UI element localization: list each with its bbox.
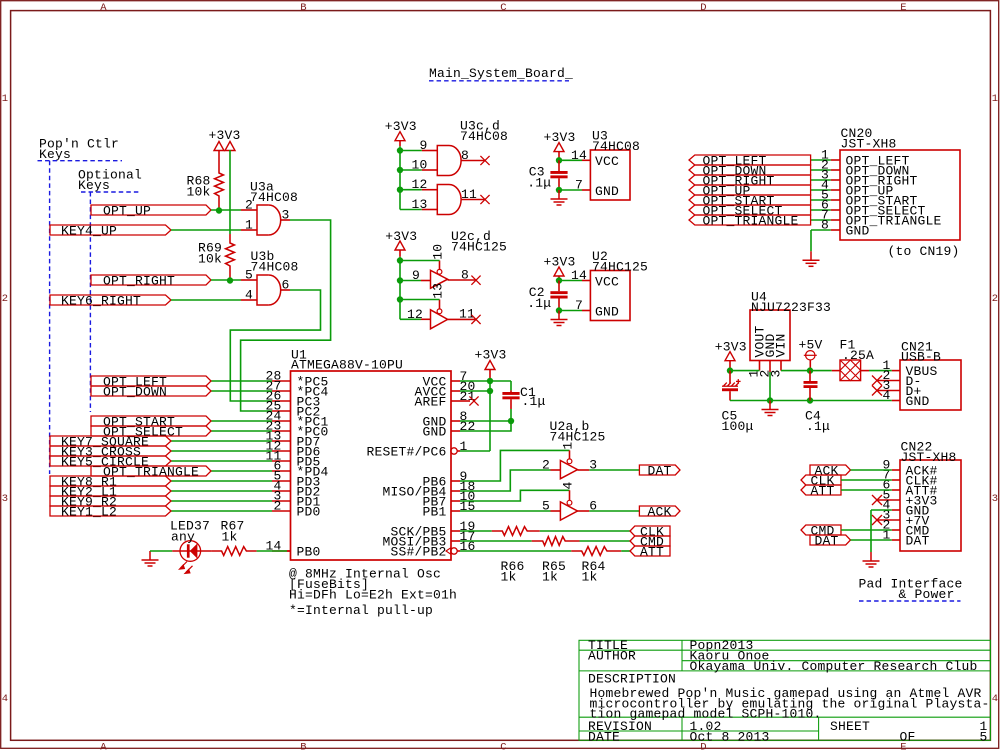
svg-text:2: 2 <box>2 293 9 305</box>
wire DAT to CN22 <box>851 539 892 541</box>
svg-text:NJU7223F33: NJU7223F33 <box>751 300 831 315</box>
svg-text:11: 11 <box>461 187 477 202</box>
junction C3 top <box>556 157 562 163</box>
U2d pin 11 output <box>448 307 476 322</box>
hierarchical label OPT_DOWN <box>91 384 211 399</box>
title block AUTHOR row <box>588 649 978 675</box>
wire VIN/+5V row <box>781 370 832 372</box>
svg-text:2: 2 <box>992 293 999 305</box>
svg-text:USB-B: USB-B <box>901 350 941 365</box>
power +3V3 (U3/C3) <box>544 130 576 145</box>
IC U1 ATMEGA88V-10PU <box>291 348 452 561</box>
wire PB1 to U2b input <box>460 510 551 512</box>
capacitor C4 .1u <box>804 371 818 401</box>
U3a pin 3 output <box>281 208 290 223</box>
U1 pin 12 PD6 <box>265 439 320 460</box>
svg-text:74HC125: 74HC125 <box>451 240 507 255</box>
border column labels top A-E <box>100 2 907 14</box>
op-amp U2c 74HC125 buffer <box>431 229 508 288</box>
junction AVCC <box>487 388 493 394</box>
no-connect X U3c output <box>480 156 489 165</box>
wire KEY5_CIRCLE to U1 <box>171 460 272 462</box>
svg-text:74HC08: 74HC08 <box>250 190 298 205</box>
CN21 pin 3 D+ <box>878 378 922 399</box>
op-amp U2d 74HC125 buffer <box>431 309 448 329</box>
CN22 pin 7 CLK# <box>882 468 937 489</box>
wire GND pin8 row <box>460 420 511 422</box>
resistor R67 <box>212 547 257 556</box>
resistor R68 <box>215 150 224 211</box>
svg-text:4: 4 <box>560 481 575 489</box>
svg-text:74HC125: 74HC125 <box>592 259 648 274</box>
svg-text:DAT: DAT <box>906 534 930 549</box>
svg-text:KEY1_L2: KEY1_L2 <box>61 504 117 519</box>
power +3V3 label (U4 out) <box>715 339 747 354</box>
CN20 pin 4 OPT_UP <box>821 178 894 199</box>
U2a enable pin 1 <box>560 442 575 459</box>
hierarchical label CMD <box>630 534 670 549</box>
U1 pin 6 *PD4 <box>272 459 329 480</box>
label C5 100u <box>722 409 754 435</box>
wire OPT_UP to CN20 <box>811 189 831 191</box>
svg-text:1k: 1k <box>501 569 517 584</box>
wire +3V3 stem U2c,d <box>399 250 401 257</box>
U1 pin 17 MOSI/PB3 <box>382 529 475 550</box>
svg-text:DESCRIPTION: DESCRIPTION <box>588 672 676 687</box>
fuse F1 .25A <box>832 338 874 381</box>
LED LED37 any <box>170 519 212 574</box>
svg-text:1: 1 <box>560 442 575 450</box>
svg-text:PD0: PD0 <box>297 505 321 520</box>
svg-text:A: A <box>100 2 107 14</box>
power +3V3 arrow (U4 out) <box>725 352 735 361</box>
svg-text:11: 11 <box>459 307 475 322</box>
wire AVCC row <box>460 390 490 392</box>
U1 pin 8 GND <box>422 409 467 430</box>
hierarchical label KEY9_R2 <box>50 494 171 509</box>
svg-text:.1μ: .1μ <box>522 394 546 409</box>
hierarchical label KEY4_UP <box>50 223 171 238</box>
capacitor C1 <box>502 390 519 409</box>
wire OPT_DOWN to CN20 <box>811 169 831 171</box>
U1 pin 16 SS#/PB2 <box>390 539 475 560</box>
wire SS#/PB2 to R64 <box>460 550 571 552</box>
hierarchical label OPT_RIGHT (CN20) <box>689 173 811 188</box>
wire C3/U3 VCC <box>559 159 582 161</box>
U2 pin 14 <box>571 268 590 283</box>
U3c pin 10 <box>411 158 437 173</box>
svg-text:OF: OF <box>900 729 916 744</box>
svg-text:B: B <box>300 741 307 750</box>
border row labels left 1-4 <box>2 93 9 705</box>
title block frame <box>579 640 990 740</box>
junction U2d enable <box>397 296 403 302</box>
title block DATE row <box>588 729 988 744</box>
wire OPT_START to U1 <box>211 420 272 422</box>
op-amp U2b 74HC125 buffer <box>560 500 577 520</box>
no-connect X U2d output <box>471 315 480 324</box>
wire R67 to U1 PB0 <box>257 550 287 552</box>
svg-text:1: 1 <box>245 218 253 233</box>
CN20 pin 7 OPT_TRIANGLE <box>821 208 942 229</box>
U1 pin 26 PC3 <box>265 389 320 410</box>
svg-text:DAT: DAT <box>815 533 839 548</box>
wire PB0 stub <box>287 550 291 552</box>
hierarchical label KEY8_R1 <box>50 474 171 489</box>
wire U2a out to DAT <box>589 469 639 471</box>
svg-text:10k: 10k <box>186 184 210 199</box>
svg-text:E: E <box>900 2 907 14</box>
note Optional Keys <box>78 167 142 193</box>
wire OPT_SELECT to CN20 <box>811 209 831 211</box>
U1 pin 11 PD5 <box>265 449 320 470</box>
power +3V3 label (R68/R69 rail) <box>209 128 241 143</box>
hierarchical label KEY3_CROSS <box>50 444 171 459</box>
power +3V3 arrow (U3/C3) <box>554 143 564 152</box>
ground (LED37) <box>142 551 159 566</box>
note Pop'n Ctlr Keys <box>39 136 119 162</box>
power +3V3 arrow (U3c,d) <box>395 132 405 141</box>
wire +3V3 stem U2 <box>558 276 560 281</box>
junction +5V/C4 <box>807 367 813 373</box>
wire KEY7_SQUARE to U1 <box>171 440 272 442</box>
svg-text:ATMEGA88V-10PU: ATMEGA88V-10PU <box>291 358 403 373</box>
U2b pin 5 <box>542 499 560 514</box>
U1 pin 13 PD7 <box>265 429 320 450</box>
svg-text:JST-XH8: JST-XH8 <box>841 137 897 152</box>
power +3V3 arrow (R69) <box>225 142 235 151</box>
wire C2/U2 VCC <box>559 280 582 282</box>
wire U3c pin9 <box>400 150 422 152</box>
IC U3 74HC08 power unit <box>590 129 640 201</box>
svg-text:GND: GND <box>906 394 930 409</box>
junction R68/OPT_UP <box>216 207 222 213</box>
hierarchical label KEY7_SQUARE <box>50 434 171 449</box>
power +3V3 (U3c,d) <box>385 119 417 134</box>
dashed bracket Optional Keys horizontal <box>81 191 141 193</box>
capacitor C2 <box>550 281 567 311</box>
svg-text:PB0: PB0 <box>297 545 321 560</box>
CN22 pin 1 DAT <box>882 528 929 549</box>
op-amp U3b 74HC08 AND gate <box>251 249 299 305</box>
power +3V3 arrow (U2c,d) <box>395 241 405 250</box>
CN22 pin 3 +7V <box>878 508 930 529</box>
wire CN22 GND drop <box>870 510 872 552</box>
svg-text:C: C <box>500 2 507 14</box>
connector CN21 USB-B <box>900 339 961 410</box>
junction C1/GND8 <box>508 418 514 424</box>
wire U3a out to U1 PC2 <box>241 220 331 411</box>
wire KEY9_R2 to U1 <box>171 500 272 502</box>
wire CMD to CN22 <box>841 529 892 531</box>
wire KEY4_UP to U3a pin1 <box>171 229 241 231</box>
label R64 1k <box>582 559 606 584</box>
wire CN22 GND <box>871 509 892 511</box>
U1 pin 9 PB6 <box>422 469 467 490</box>
junction C5/+3V3 <box>727 367 733 373</box>
wire +3V3 stem U1 <box>489 369 491 378</box>
svg-text:ATT: ATT <box>811 483 835 498</box>
U2b pin 6 output <box>578 499 598 514</box>
wire U2c enable <box>400 260 440 262</box>
wire F1 to CN21 VBUS <box>869 370 892 372</box>
wire +3V3 stem U3c,d <box>399 140 401 146</box>
hierarchical label OPT_START <box>91 414 211 429</box>
U1 pin 15 PB1 <box>422 499 475 520</box>
U1 pin 19 SCK/PB5 <box>390 519 475 540</box>
junction U3c pin10 <box>397 167 403 173</box>
svg-text:2: 2 <box>542 458 550 473</box>
svg-text:GND: GND <box>595 184 619 199</box>
svg-text:8: 8 <box>461 268 469 283</box>
svg-text:DAT: DAT <box>648 463 672 478</box>
svg-text:Okayama Univ. Computer Researc: Okayama Univ. Computer Research Club <box>690 659 978 674</box>
connector CN20 JST-XH8 <box>840 126 960 240</box>
U3b pin 6 output <box>281 278 290 293</box>
wire AREF stub <box>460 400 470 402</box>
wire OPT_TRIANGLE to CN20 <box>811 219 831 221</box>
power +5V symbol <box>799 338 823 371</box>
svg-text:OPT_TRIANGLE: OPT_TRIANGLE <box>103 464 199 479</box>
svg-text:VIN: VIN <box>774 333 789 357</box>
no-connect X CN22 +7V <box>872 515 882 525</box>
ground (CN22) <box>863 552 880 567</box>
U2d enable pin 13 <box>430 283 445 309</box>
wire CN20 GND <box>811 229 831 231</box>
U2c pin 8 output <box>448 268 476 283</box>
hierarchical label KEY2_L1 <box>50 484 171 499</box>
U1 pin 22 GND <box>422 419 475 440</box>
svg-text:GND: GND <box>846 224 870 239</box>
op-amp U3d 74HC08 AND gate <box>437 185 461 215</box>
CN20 pin 1 OPT_LEFT <box>821 148 910 169</box>
U2c enable pin 10 <box>430 244 445 270</box>
svg-text:OPT_RIGHT: OPT_RIGHT <box>103 273 175 288</box>
hierarchical label KEY1_L2 <box>50 504 171 519</box>
wire U3 GND <box>559 189 582 191</box>
svg-text:Main_System_Board_: Main_System_Board_ <box>429 66 573 81</box>
heading underline (blue dashed) <box>429 80 569 82</box>
svg-text:VCC: VCC <box>595 154 619 169</box>
CN22 pin 2 CMD <box>882 518 929 539</box>
CN21 pin 1 VBUS <box>882 358 937 379</box>
CN20 pin 5 OPT_START <box>821 188 918 209</box>
U4 pin 2 GND <box>758 361 773 378</box>
U1 pin 3 PD1 <box>272 489 321 510</box>
U1 pin 7 VCC <box>422 369 467 390</box>
U3a pin 2 <box>241 198 257 213</box>
wire ground to LED37 <box>150 550 172 552</box>
ground (U4) <box>762 401 779 416</box>
junction C2 top <box>556 277 562 283</box>
svg-text:RESET#/PC6: RESET#/PC6 <box>366 445 446 460</box>
hierarchical label DAT <box>639 463 680 478</box>
wire CLK to CN22 <box>841 479 892 481</box>
svg-text:any: any <box>171 530 195 545</box>
CN22 pin 9 ACK# <box>882 458 937 479</box>
wire KEY6_RIGHT to U3b pin4 <box>171 299 241 301</box>
svg-text:2: 2 <box>273 499 281 514</box>
no-connect X U2c output <box>471 276 480 285</box>
ground (C3/U3) <box>551 190 568 205</box>
wire MOSI/PB3 to R65 <box>460 540 532 542</box>
label R68 10k <box>186 173 210 199</box>
svg-text:DATE: DATE <box>588 729 620 744</box>
svg-text:Hi=DFh Lo=E2h Ext=01h: Hi=DFh Lo=E2h Ext=01h <box>289 587 457 602</box>
svg-text:4: 4 <box>882 388 890 403</box>
sheet heading Main_System_Board <box>429 66 573 81</box>
wire R65 to CMD <box>580 540 631 542</box>
wire OPT_UP to U3a pin2 <box>211 209 241 211</box>
wire U3d pin13 <box>400 209 422 211</box>
U1 pin 10 PB7 <box>422 489 475 510</box>
wire U2c input <box>400 280 421 282</box>
border column labels bottom A-E <box>100 741 907 753</box>
ground (CN20) <box>803 251 820 266</box>
no-connect X AREF <box>469 396 478 405</box>
power +3V3 label (U1) <box>475 348 507 363</box>
IC U4 NJU7223F33 regulator <box>750 290 831 361</box>
svg-text:10: 10 <box>430 244 445 260</box>
svg-text:4: 4 <box>992 693 999 705</box>
svg-text:4: 4 <box>245 288 253 303</box>
svg-text:KEY6_RIGHT: KEY6_RIGHT <box>61 293 141 308</box>
svg-text:B: B <box>300 2 307 14</box>
wire +3V3 rail U3c,d <box>399 146 401 209</box>
svg-text:OPT_UP: OPT_UP <box>103 203 151 218</box>
CN20 pin 3 OPT_RIGHT <box>821 168 918 189</box>
svg-text:13: 13 <box>430 283 445 299</box>
hierarchical label CLK <box>630 524 670 539</box>
resistor R64 <box>571 547 621 556</box>
U2a pin 3 output <box>578 458 598 473</box>
title block DESCRIPTION <box>588 672 990 722</box>
junction C2 bottom <box>556 307 562 313</box>
wire U2d input <box>400 318 421 320</box>
note fuse bits <box>289 566 457 602</box>
CN21 pin 2 D- <box>878 368 922 389</box>
hierarchical label ATT (CN22) <box>801 483 841 498</box>
wire +3V3 rail U2c,d <box>399 257 401 320</box>
hierarchical label ATT <box>630 544 670 559</box>
U2c pin 9 <box>412 268 431 283</box>
power +3V3 arrow (U1) <box>485 361 495 370</box>
svg-text:ACK: ACK <box>648 504 672 519</box>
U3c pin 9 <box>419 138 437 153</box>
svg-text:ATT: ATT <box>640 544 664 559</box>
label C1 .1u <box>520 385 546 409</box>
U1 pin 20 AVCC <box>414 379 475 400</box>
wire KEY1_L2 to U1 <box>171 510 272 512</box>
hierarchical label OPT_DOWN (CN20) <box>689 163 811 178</box>
power +3V3 (U2c,d) <box>385 229 417 244</box>
svg-text:74HC08: 74HC08 <box>251 260 299 275</box>
hierarchical label CLK (CN22) <box>801 473 841 488</box>
U3d pin 13 <box>411 197 437 212</box>
U3b pin 5 <box>241 268 257 283</box>
hierarchical label DAT (CN22) <box>810 533 851 548</box>
junction U3d pin12 <box>397 187 403 193</box>
U4 pin 3 VIN <box>769 361 784 378</box>
label R67 1k <box>221 519 245 545</box>
svg-text:5: 5 <box>542 499 550 514</box>
U1 pin 2 PD0 <box>272 499 321 520</box>
resistor R65 <box>532 537 580 546</box>
op-amp U3a 74HC08 AND gate <box>250 180 298 236</box>
wire ATT to CN22 <box>841 489 892 491</box>
CN22 pin 5 +3V3 <box>878 488 938 509</box>
wire RESET row <box>460 450 490 452</box>
hierarchical label KEY5_CIRCLE <box>50 454 171 469</box>
wire KEY3_CROSS to U1 <box>171 450 272 452</box>
junction U2c enable <box>397 257 403 263</box>
svg-text:C: C <box>500 741 507 750</box>
resistor R69 <box>226 234 235 281</box>
wire R64 to ATT <box>621 550 630 552</box>
CN21 pin 4 GND <box>882 388 929 409</box>
svg-text:Keys: Keys <box>78 178 110 193</box>
wire VCC to C1 <box>510 381 512 390</box>
svg-text:Keys: Keys <box>39 147 71 162</box>
wire OPT_LEFT to U1 <box>211 380 272 382</box>
svg-text:3: 3 <box>281 208 289 223</box>
U2 pin 7 <box>575 298 590 313</box>
power +3V3 arrow (U2/C2) <box>554 267 564 276</box>
capacitor C3 <box>550 160 567 190</box>
junction U4 GND <box>767 397 773 403</box>
no-connect X CN21 D+ <box>872 386 882 396</box>
U1 pin 5 PD3 <box>272 469 321 490</box>
wire R66 to CLK <box>540 530 630 532</box>
U1 pin 27 *PC4 <box>265 379 328 400</box>
connector CN22 JST-XH8 <box>900 440 961 552</box>
hierarchical label OPT_RIGHT <box>91 273 211 288</box>
op-amp U3c 74HC08 AND gate <box>437 119 508 176</box>
wire U2 GND <box>559 310 582 312</box>
resistor R66 <box>492 527 540 536</box>
svg-text:3: 3 <box>2 493 9 505</box>
U2b enable pin 4 <box>560 481 575 500</box>
U3c pin 8 output <box>461 148 485 163</box>
U4 pin 1 VOUT <box>747 361 762 378</box>
svg-text:3: 3 <box>992 493 999 505</box>
no-connect X U3d output <box>480 195 489 204</box>
hierarchical label OPT_SELECT <box>91 424 211 439</box>
svg-text:AUTHOR: AUTHOR <box>588 649 636 664</box>
op-amp U2a 74HC125 buffer <box>550 419 606 479</box>
svg-text:A: A <box>100 741 107 750</box>
wire +3V3 stem U4 <box>729 360 731 370</box>
wire OPT_LEFT to CN20 <box>811 159 831 161</box>
svg-text:OPT_DOWN: OPT_DOWN <box>103 384 167 399</box>
junction R69/OPT_RIGHT <box>227 277 233 283</box>
svg-text:5: 5 <box>245 268 253 283</box>
hierarchical label OPT_START (CN20) <box>689 193 811 208</box>
svg-text:AREF: AREF <box>414 395 446 410</box>
junction U3c pin9 <box>397 147 403 153</box>
svg-text:.1μ: .1μ <box>527 296 551 311</box>
U1 pin 23 *PC0 <box>265 419 328 440</box>
note Pad Interface & Power <box>859 577 963 603</box>
wire C1 to GND rail <box>510 409 512 421</box>
wire OPT_TRIANGLE to U1 <box>211 470 272 472</box>
dashed underline Pad Interface <box>859 600 961 602</box>
CN22 pin 6 ATT# <box>882 478 937 499</box>
svg-text:D: D <box>700 2 707 14</box>
svg-text:KEY4_UP: KEY4_UP <box>61 223 117 238</box>
wire SCK/PB5 to R66 <box>460 530 492 532</box>
dashed bracket Pop'n Ctlr Keys horizontal <box>38 160 123 162</box>
